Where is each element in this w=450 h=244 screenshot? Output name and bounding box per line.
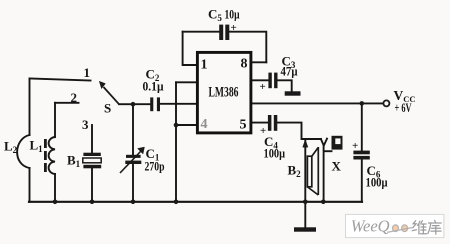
coil L2 (loop) [17, 135, 29, 168]
svg-text:0.1μ: 0.1μ [143, 79, 165, 94]
svg-text:10μ: 10μ [225, 7, 240, 22]
svg-text:+: + [260, 81, 266, 93]
svg-text:4: 4 [201, 117, 208, 132]
svg-text:X: X [332, 159, 342, 174]
wire ground stub bottom [304, 202, 306, 228]
wire C2 to pin3 [160, 103, 197, 105]
svg-text:1: 1 [201, 58, 208, 73]
svg-text:1: 1 [84, 65, 91, 80]
jack X plug symbol [332, 136, 343, 150]
svg-text:+: + [352, 140, 358, 152]
node Vcc junction [360, 101, 365, 106]
capacitor C6 plates [353, 151, 369, 160]
capacitor C3 plates [268, 73, 277, 89]
svg-text:100μ: 100μ [264, 146, 286, 161]
node L1 bus junction [53, 200, 58, 205]
wire C2 input [133, 103, 150, 105]
node ground vertical bus junction [174, 200, 179, 205]
coil L1 [49, 137, 55, 174]
wire pin1 to C5 [183, 32, 198, 65]
wire C6 bottom [361, 160, 363, 202]
wire switch contact 1 [30, 79, 91, 81]
wire pin5 to C4 [251, 122, 268, 124]
wire left vertical lower [29, 168, 31, 202]
capacitor C1 plates (variable) [125, 155, 141, 164]
ground (main) [294, 227, 316, 231]
wire jack plug stub [324, 150, 332, 152]
svg-text:S: S [104, 101, 111, 116]
svg-text:100μ: 100μ [366, 175, 389, 190]
svg-text:270p: 270p [145, 159, 165, 174]
svg-text:47μ: 47μ [281, 64, 299, 79]
jack X normally-closed arrow [303, 140, 308, 147]
wire C5 left [183, 31, 220, 33]
wire C4 to jack [277, 123, 321, 139]
svg-text:+: + [231, 22, 237, 34]
wire pin7 to C3 [251, 79, 269, 81]
wire C3 to ground [278, 80, 292, 91]
wire pin2/pin4 ground vertical [175, 82, 177, 202]
watermark 维 glyph [412, 221, 426, 234]
node jack bus junction [321, 200, 326, 205]
svg-text:2: 2 [71, 90, 78, 105]
op-amp U1 LM386 body [197, 52, 251, 132]
svg-text:3: 3 [82, 117, 89, 132]
wire contact 3 to B1 [91, 125, 93, 153]
wire ground bus [29, 201, 362, 203]
node B1 bus junction [90, 200, 95, 205]
switch S arm [99, 81, 119, 104]
capacitor C5 plates [219, 25, 229, 40]
svg-text:8: 8 [241, 57, 248, 72]
wire jack sleeve down [323, 146, 325, 202]
wire Vcc rail pin6 [251, 102, 383, 104]
ground (C3 bypass) [285, 91, 301, 95]
node S common junction [131, 102, 136, 107]
speaker B2 [307, 147, 318, 195]
component B1 (ceramic element) [83, 153, 101, 169]
svg-text:5: 5 [240, 118, 247, 133]
wire L1 top [54, 103, 56, 137]
wire pin4 stub [176, 124, 197, 126]
wire switch contact 2 [55, 102, 79, 104]
jack X contact notch [321, 139, 327, 146]
wire left vertical (antenna branch) [29, 79, 31, 136]
coil L1 core (dashed) [44, 139, 47, 172]
wire B1 bottom [91, 169, 93, 202]
capacitor C1 arrow [120, 147, 145, 173]
wire switch arm to node [119, 103, 133, 105]
wire C6 top [361, 103, 363, 150]
svg-text:WeeQ: WeeQ [351, 217, 390, 236]
wire C1 bottom [132, 164, 134, 202]
wire pin2 ground stub [176, 81, 197, 83]
svg-text:LM386: LM386 [209, 84, 239, 100]
terminal Vcc [383, 100, 389, 106]
node pin2/4 ground junction [174, 123, 179, 128]
watermark 库 glyph [428, 220, 441, 234]
node C1 bus junction [131, 200, 136, 205]
svg-text:+ 6V: + 6V [395, 100, 412, 115]
wire C5 right [229, 32, 266, 63]
wire pin8 [251, 61, 266, 63]
wire speaker feed [304, 139, 306, 202]
capacitor C4 plates [268, 115, 277, 131]
wire S common to C1 top [132, 104, 134, 155]
capacitor C2 plates [150, 97, 160, 111]
wire L1 bottom [54, 174, 56, 202]
node speaker bus junction [303, 200, 308, 205]
watermark WeeQoo box [346, 214, 444, 237]
